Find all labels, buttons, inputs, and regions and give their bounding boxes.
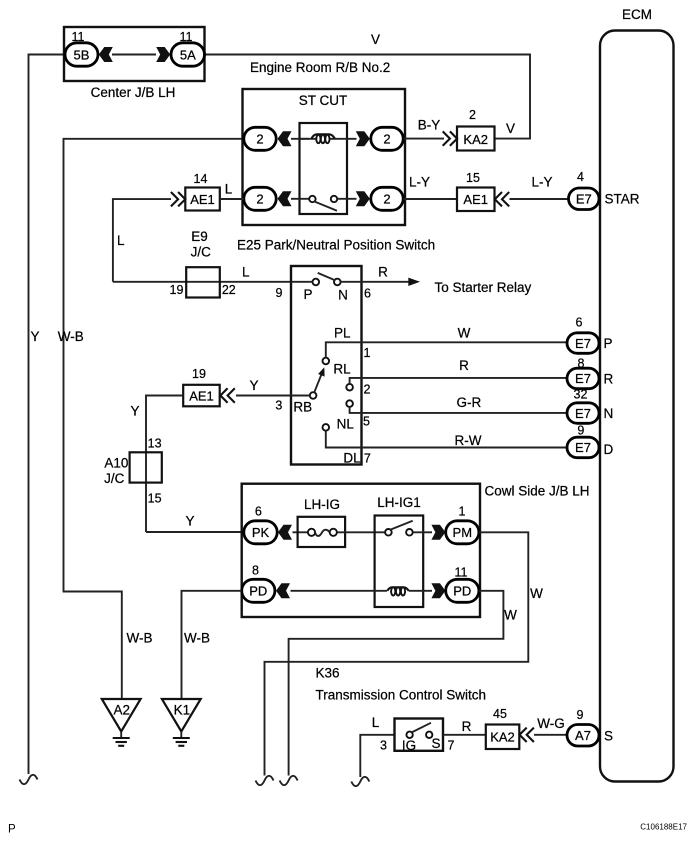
svg-text:Y: Y bbox=[30, 329, 39, 344]
wire L-Y from E7 STAR bbox=[510, 198, 569, 200]
contact PL bbox=[323, 358, 330, 365]
wire break squiggle (left Y wire) bbox=[20, 775, 38, 784]
svg-text:RL: RL bbox=[333, 362, 351, 377]
svg-text:L-Y: L-Y bbox=[531, 175, 552, 190]
chevron into KA2 (points right) bbox=[443, 131, 457, 145]
svg-text:5B: 5B bbox=[74, 47, 90, 62]
relay box LH-IG1 bbox=[375, 516, 424, 608]
connector 5A bbox=[171, 43, 205, 66]
LH-IG1 switch contact right bbox=[406, 529, 413, 536]
wire RL up and right (R row) bbox=[350, 378, 567, 384]
svg-text:L: L bbox=[242, 265, 250, 280]
svg-text:J/C: J/C bbox=[104, 471, 125, 486]
arrow into lower-right 2 (points right) bbox=[356, 191, 370, 206]
wire break squiggle (PM W wire) bbox=[256, 776, 274, 785]
svg-text:E7: E7 bbox=[575, 440, 591, 455]
wire switch to right arrow bbox=[337, 198, 356, 200]
svg-text:1: 1 bbox=[459, 505, 466, 519]
svg-text:L: L bbox=[372, 715, 380, 730]
svg-text:2: 2 bbox=[364, 383, 371, 397]
svg-text:5: 5 bbox=[363, 415, 370, 429]
Cowl Side J/B LH box bbox=[242, 484, 480, 617]
wire break squiggle (L wire) bbox=[351, 777, 369, 786]
wire L into K36 switch and down to break bbox=[360, 735, 394, 777]
fuse element bbox=[308, 529, 337, 536]
arrow into PD 11 (points right) bbox=[431, 583, 445, 598]
svg-text:Y: Y bbox=[185, 514, 194, 529]
svg-text:5A: 5A bbox=[180, 47, 196, 62]
svg-text:2: 2 bbox=[383, 132, 390, 147]
svg-text:W-B: W-B bbox=[58, 329, 84, 344]
svg-text:AE1: AE1 bbox=[189, 388, 214, 403]
E25 Park/Neutral Position Switch box bbox=[291, 266, 362, 465]
svg-text:PK: PK bbox=[252, 525, 270, 540]
K36 switch lever bbox=[411, 723, 431, 733]
wire W from PM right, down, left, down to break bbox=[265, 532, 529, 775]
svg-text:15: 15 bbox=[148, 492, 162, 506]
svg-text:13: 13 bbox=[148, 437, 162, 451]
svg-text:P: P bbox=[303, 287, 312, 302]
svg-text:L: L bbox=[117, 233, 125, 248]
Center J/B LH box bbox=[64, 27, 205, 81]
contact RB bbox=[310, 392, 317, 399]
wire AE1 14 to lower-left 2 bbox=[220, 198, 244, 200]
svg-text:Cowl Side J/B LH: Cowl Side J/B LH bbox=[485, 484, 590, 499]
wire AE1 19 left and down to A10 bbox=[146, 396, 183, 533]
wire NL down and right (G-R row) bbox=[350, 407, 567, 413]
wire B-Y to KA2 bbox=[403, 138, 444, 140]
svg-text:NL: NL bbox=[337, 417, 355, 432]
connector PD (pin 11) bbox=[446, 579, 479, 602]
svg-text:4: 4 bbox=[577, 170, 584, 184]
chevron out of AE1 15 (points left) bbox=[495, 192, 509, 206]
svg-text:7: 7 bbox=[448, 739, 455, 753]
wire to relay switch bbox=[291, 198, 309, 200]
svg-text:AE1: AE1 bbox=[190, 192, 215, 207]
relay switch contact right bbox=[331, 196, 337, 202]
arrow into PD 8 (points left) bbox=[276, 583, 290, 598]
svg-text:3: 3 bbox=[380, 739, 387, 753]
wire PL up and right (W row) bbox=[326, 342, 567, 358]
arrow into 5B (points left) bbox=[99, 47, 113, 62]
svg-text:3: 3 bbox=[275, 399, 282, 413]
svg-text:ECM: ECM bbox=[622, 7, 652, 22]
svg-text:32: 32 bbox=[574, 388, 588, 402]
connector KA2 bbox=[457, 127, 495, 151]
arrow into PK (points left) bbox=[278, 525, 292, 540]
connector 2 (ST CUT lower right) bbox=[371, 187, 403, 210]
svg-text:7: 7 bbox=[364, 452, 371, 466]
svg-text:W-B: W-B bbox=[184, 631, 210, 646]
svg-text:C106188E17: C106188E17 bbox=[640, 823, 687, 832]
wire W-G from A7 bbox=[534, 734, 567, 736]
wire between 5B and 5A bbox=[112, 54, 156, 56]
svg-text:KA2: KA2 bbox=[490, 730, 515, 745]
svg-text:PM: PM bbox=[453, 525, 473, 540]
svg-text:R-W: R-W bbox=[455, 433, 482, 448]
wire A10 down to PK row bbox=[146, 531, 244, 533]
connector PD (pin 8) bbox=[242, 579, 275, 602]
svg-text:A2: A2 bbox=[114, 703, 131, 718]
svg-text:S: S bbox=[604, 729, 613, 744]
svg-text:8: 8 bbox=[252, 564, 259, 578]
svg-text:P: P bbox=[8, 824, 16, 836]
arrow into upper-left 2 (points left) bbox=[278, 131, 292, 146]
svg-text:6: 6 bbox=[576, 316, 583, 330]
svg-text:Y: Y bbox=[249, 378, 258, 393]
ECM module box bbox=[600, 31, 674, 782]
svg-text:1: 1 bbox=[364, 346, 371, 360]
wire through E9 J/C to switch box bbox=[113, 281, 291, 283]
connector AE1 14 bbox=[185, 188, 220, 211]
connector AE1 19 bbox=[183, 385, 220, 407]
relay inner box bbox=[300, 123, 348, 214]
svg-text:9: 9 bbox=[577, 424, 584, 438]
ST CUT relay box bbox=[243, 89, 406, 225]
wire: Y from 5B down left side bbox=[29, 55, 65, 775]
RB lever arrowhead bbox=[318, 367, 325, 376]
svg-text:P: P bbox=[604, 336, 613, 351]
arrow into upper-right 2 (points right) bbox=[356, 131, 370, 146]
svg-text:STAR: STAR bbox=[605, 192, 640, 207]
svg-text:R: R bbox=[378, 265, 388, 280]
svg-text:S: S bbox=[431, 736, 440, 751]
svg-text:ST CUT: ST CUT bbox=[299, 93, 348, 108]
junction box A10 J/C bbox=[130, 452, 162, 482]
wire DL down and right (R-W row) bbox=[326, 431, 567, 448]
svg-text:R: R bbox=[459, 358, 469, 373]
svg-text:19: 19 bbox=[192, 367, 206, 381]
svg-text:22: 22 bbox=[222, 283, 236, 297]
svg-text:6: 6 bbox=[255, 505, 262, 519]
svg-text:N: N bbox=[604, 406, 614, 421]
svg-text:2: 2 bbox=[383, 192, 390, 207]
relay switch contact left bbox=[309, 196, 315, 202]
svg-text:E7: E7 bbox=[575, 336, 591, 351]
wire arrow to LH-IG1 bbox=[291, 590, 388, 592]
arrow into PM (points right) bbox=[431, 525, 445, 540]
svg-text:2: 2 bbox=[256, 132, 263, 147]
connector AE1 15 bbox=[457, 188, 495, 212]
connector 2 (ST CUT upper right) bbox=[371, 127, 403, 150]
svg-text:R: R bbox=[604, 372, 614, 387]
LH-IG1 relay coil bbox=[387, 587, 408, 595]
connector KA2 45 bbox=[486, 725, 520, 750]
svg-text:A7: A7 bbox=[575, 728, 591, 743]
svg-text:K36: K36 bbox=[316, 666, 340, 681]
svg-text:DL: DL bbox=[343, 451, 361, 466]
wire from lower-right 2 to AE1 15 bbox=[403, 198, 457, 200]
svg-text:PD: PD bbox=[453, 584, 471, 599]
svg-text:RB: RB bbox=[293, 400, 312, 415]
connector E7 (N) bbox=[567, 403, 599, 424]
fuse box LH-IG bbox=[298, 517, 346, 547]
svg-text:To Starter Relay: To Starter Relay bbox=[435, 280, 532, 295]
svg-text:W: W bbox=[530, 586, 543, 601]
wire RB to AE1 19 bbox=[236, 395, 310, 397]
svg-text:G-R: G-R bbox=[457, 395, 482, 410]
wire into P contact bbox=[291, 281, 313, 283]
connector E7 (STAR) bbox=[569, 188, 600, 210]
wire: V net from 5A along top to KA2 bbox=[205, 55, 531, 139]
connector A7 bbox=[567, 725, 599, 747]
LH-IG1 switch lever bbox=[390, 521, 413, 530]
svg-text:9: 9 bbox=[276, 286, 283, 300]
chevron out of AE1 19 (points left) bbox=[220, 388, 234, 402]
svg-text:E7: E7 bbox=[576, 192, 592, 207]
connector 2 (ST CUT upper left) bbox=[244, 127, 276, 150]
svg-text:LH-IG1: LH-IG1 bbox=[377, 495, 421, 510]
svg-text:LH-IG: LH-IG bbox=[304, 497, 340, 512]
wire coil to PD arrow bbox=[409, 590, 432, 592]
svg-text:IG: IG bbox=[402, 738, 416, 753]
svg-text:2: 2 bbox=[256, 192, 263, 207]
svg-text:J/C: J/C bbox=[191, 245, 212, 260]
svg-text:PL: PL bbox=[334, 326, 351, 341]
connector E7 (P) bbox=[567, 333, 599, 354]
svg-text:Center J/B LH: Center J/B LH bbox=[91, 85, 176, 100]
LH-IG1 switch contact left bbox=[385, 529, 392, 536]
svg-text:KA2: KA2 bbox=[463, 132, 488, 147]
svg-text:Engine Room R/B No.2: Engine Room R/B No.2 bbox=[250, 60, 390, 75]
svg-text:45: 45 bbox=[493, 707, 507, 721]
chevron out of KA2 45 (points left) bbox=[520, 728, 534, 742]
svg-text:E7: E7 bbox=[575, 406, 591, 421]
wire from corner to AE1 14 and down to E9 J/C row bbox=[113, 199, 171, 282]
svg-text:R: R bbox=[462, 719, 472, 734]
svg-text:K1: K1 bbox=[174, 703, 191, 718]
svg-text:W-B: W-B bbox=[127, 631, 153, 646]
K36 Transmission Control Switch box bbox=[395, 719, 444, 751]
wire from N to starter relay arrow bbox=[341, 281, 410, 283]
svg-text:W: W bbox=[458, 326, 471, 341]
ground K1 bbox=[162, 699, 201, 746]
svg-text:11: 11 bbox=[455, 566, 468, 580]
ground A2 bbox=[102, 699, 141, 746]
junction box E9 J/C bbox=[186, 267, 220, 297]
svg-text:L: L bbox=[225, 182, 233, 197]
svg-text:Transmission Control Switch: Transmission Control Switch bbox=[316, 688, 487, 703]
wire break squiggle (PD W wire) bbox=[280, 776, 298, 785]
connector 5B bbox=[65, 43, 98, 66]
wire arrow to relay box bbox=[291, 138, 309, 140]
svg-text:15: 15 bbox=[466, 171, 480, 185]
arrow into lower-left 2 (points left) bbox=[278, 191, 292, 206]
svg-text:L-Y: L-Y bbox=[409, 175, 430, 190]
arrow into 5A (points right) bbox=[156, 47, 170, 62]
contact S bbox=[426, 732, 432, 738]
svg-text:E7: E7 bbox=[575, 371, 591, 386]
svg-text:B-Y: B-Y bbox=[418, 118, 441, 133]
wire fuse to LH-IG1 bbox=[337, 531, 385, 533]
svg-text:PD: PD bbox=[249, 584, 267, 599]
svg-text:V: V bbox=[371, 32, 380, 47]
svg-text:Y: Y bbox=[130, 404, 139, 419]
chevron into AE1 14 (points right) bbox=[171, 192, 185, 206]
contact RL bbox=[346, 384, 353, 391]
svg-text:E25 Park/Neutral Position Swit: E25 Park/Neutral Position Switch bbox=[237, 238, 435, 253]
contact NL bbox=[346, 400, 353, 407]
connector E7 (D) bbox=[567, 437, 599, 458]
svg-text:2: 2 bbox=[469, 108, 476, 122]
connector E7 (R) bbox=[567, 368, 599, 389]
svg-text:D: D bbox=[604, 442, 614, 457]
wire switch to PM arrow bbox=[413, 531, 432, 533]
svg-text:AE1: AE1 bbox=[463, 192, 488, 207]
contact DL bbox=[323, 424, 330, 431]
svg-text:14: 14 bbox=[194, 172, 208, 186]
svg-text:6: 6 bbox=[364, 287, 371, 301]
svg-text:V: V bbox=[506, 121, 515, 136]
contact N bbox=[334, 279, 341, 286]
svg-text:W: W bbox=[504, 608, 517, 623]
contact P bbox=[313, 279, 320, 286]
relay coil bbox=[300, 134, 357, 143]
svg-text:9: 9 bbox=[577, 708, 584, 722]
svg-text:W-G: W-G bbox=[537, 716, 565, 731]
connector PM bbox=[446, 521, 479, 544]
relay switch lever bbox=[314, 201, 337, 211]
wire R from K36 to KA2 45 bbox=[443, 734, 486, 736]
wire: W-B from ST CUT pin2 down to A2 ground bbox=[64, 139, 244, 699]
svg-text:A10: A10 bbox=[104, 456, 128, 471]
arrowhead to starter relay bbox=[408, 278, 420, 286]
wire W-B from PD 8 left and down to K1 ground bbox=[182, 591, 242, 699]
svg-text:E9: E9 bbox=[191, 229, 208, 244]
P-N switch lever bbox=[318, 273, 336, 281]
connector 2 (ST CUT lower left) bbox=[244, 187, 276, 210]
connector PK bbox=[244, 521, 277, 544]
wire W from PD 11 right, down, left, down to break bbox=[289, 591, 504, 776]
RB selector lever bbox=[314, 374, 322, 393]
contact IG bbox=[406, 732, 412, 738]
wire arrow to fuse box bbox=[293, 531, 309, 533]
svg-text:N: N bbox=[338, 288, 348, 303]
svg-text:19: 19 bbox=[170, 283, 184, 297]
